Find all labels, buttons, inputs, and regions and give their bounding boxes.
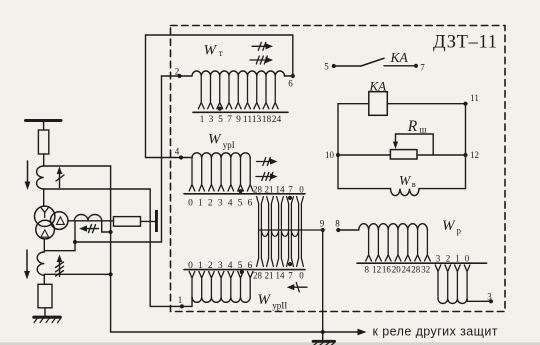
node junction C bbox=[109, 272, 113, 276]
transformer T1 winding Y circle bbox=[35, 206, 55, 226]
svg-text:1: 1 bbox=[198, 261, 203, 271]
svg-text:3: 3 bbox=[436, 254, 441, 264]
svg-text:4: 4 bbox=[175, 147, 180, 157]
svg-text:W: W bbox=[399, 173, 412, 188]
svg-text:р: р bbox=[457, 226, 462, 236]
winding WурII legs bbox=[189, 271, 253, 297]
svg-text:6: 6 bbox=[288, 79, 293, 89]
polarity arrow Wт two-slash bbox=[252, 42, 267, 50]
wire resistor to plate bar bbox=[141, 220, 156, 222]
terminal 4 bbox=[181, 157, 192, 159]
wire TA2 bottom terminal bbox=[44, 273, 110, 275]
svg-text:11: 11 bbox=[470, 93, 479, 103]
contact KA bbox=[332, 64, 336, 68]
wire TA2 to load resistor bbox=[43, 275, 45, 284]
bottom output wire bbox=[111, 331, 358, 333]
wire rail to KA coil bbox=[338, 103, 369, 105]
terminal 3 bbox=[467, 299, 489, 302]
svg-text:16: 16 bbox=[382, 265, 392, 275]
svg-text:21: 21 bbox=[265, 185, 274, 195]
svg-text:урI: урI bbox=[223, 140, 235, 150]
svg-text:W: W bbox=[442, 218, 456, 234]
WурI tap legs bbox=[189, 158, 253, 191]
current arrow I2 down bbox=[26, 250, 28, 271]
current arrow I1 down bbox=[27, 161, 29, 182]
svg-text:32: 32 bbox=[421, 265, 430, 275]
Wт tap legs bbox=[198, 76, 278, 109]
WурI tap 5 dot bbox=[238, 189, 242, 193]
relay coil KA bbox=[369, 92, 388, 116]
aux CT TA3 bumps bbox=[74, 215, 101, 221]
terminal 6 bbox=[285, 35, 293, 76]
svg-text:W: W bbox=[204, 43, 218, 59]
winding Wв coil bbox=[391, 189, 420, 196]
svg-text:0: 0 bbox=[299, 270, 304, 280]
wire rail to Wв bbox=[338, 188, 391, 190]
svg-text:ш: ш bbox=[420, 125, 427, 135]
winding Wр coil bbox=[359, 224, 428, 230]
Wт tap bar bbox=[193, 111, 288, 113]
svg-text:1: 1 bbox=[455, 254, 460, 264]
Wр fine tap numbers 3 2 1 0 bbox=[436, 254, 470, 264]
svg-text:21: 21 bbox=[265, 270, 274, 280]
flux arrow one-slash at TA1 bbox=[56, 172, 64, 188]
svg-text:14: 14 bbox=[276, 270, 286, 280]
wire to chassis ground bbox=[322, 332, 324, 341]
polarity arrow WурI two-slash bbox=[257, 158, 272, 166]
terminal 1 bbox=[150, 297, 192, 306]
middle winding cross arcs bbox=[261, 230, 298, 236]
svg-text:12: 12 bbox=[470, 150, 479, 160]
svg-text:28: 28 bbox=[253, 185, 263, 195]
svg-text:1: 1 bbox=[198, 199, 203, 209]
winding Wт coil bbox=[192, 71, 285, 76]
polarity arrow WурI three-slash bbox=[256, 173, 273, 181]
delta symbol bottom bbox=[41, 230, 49, 237]
Wр tap bar bbox=[357, 262, 487, 264]
svg-text:0: 0 bbox=[188, 261, 193, 271]
svg-text:28: 28 bbox=[253, 270, 263, 280]
flux arrow three-slash at TA2 bbox=[56, 260, 64, 277]
svg-text:6: 6 bbox=[248, 199, 253, 209]
svg-text:24: 24 bbox=[402, 265, 412, 275]
svg-text:в: в bbox=[412, 179, 416, 189]
arrow to other relays bbox=[358, 329, 367, 336]
wire T1 bottom to CT TA2 bbox=[43, 239, 45, 252]
breaker Q bbox=[38, 130, 48, 154]
transformer T1 Y symbol bbox=[41, 208, 48, 218]
Wр fine winding legs bbox=[435, 265, 470, 299]
WурII tap 5 dot bbox=[240, 270, 244, 274]
svg-text:5: 5 bbox=[238, 199, 243, 209]
svg-text:5: 5 bbox=[324, 62, 329, 72]
svg-text:5: 5 bbox=[218, 115, 223, 125]
wire TA1 top terminal bbox=[44, 165, 111, 167]
Wр tap legs bbox=[366, 230, 431, 261]
wire TA3 left tap down bbox=[74, 221, 76, 251]
WурI tap bar bbox=[184, 193, 305, 195]
svg-text:28: 28 bbox=[411, 265, 421, 275]
svg-text:КА: КА bbox=[390, 50, 409, 65]
svg-text:13: 13 bbox=[252, 115, 262, 125]
wire node A to vertical C bbox=[75, 241, 162, 243]
svg-text:3: 3 bbox=[218, 199, 223, 209]
WурII tap numbers 0-6 bbox=[188, 261, 252, 271]
wire busbar to breaker Q bbox=[43, 122, 45, 130]
svg-text:3: 3 bbox=[209, 115, 214, 125]
svg-text:5: 5 bbox=[238, 261, 243, 271]
relay case dashed boundary ДЗТ-11 bbox=[171, 26, 506, 312]
resistor Rш bbox=[390, 150, 417, 159]
terminal 2 bbox=[162, 75, 193, 77]
vertical wire C from terminal 2 bbox=[161, 76, 163, 242]
svg-text:4: 4 bbox=[228, 199, 233, 209]
svg-text:9: 9 bbox=[320, 219, 325, 229]
Rш wiper arm bbox=[396, 134, 434, 155]
svg-text:3: 3 bbox=[487, 292, 492, 302]
svg-text:2: 2 bbox=[208, 199, 213, 209]
Wр tap numbers bbox=[365, 265, 431, 275]
svg-text:урII: урII bbox=[272, 300, 287, 310]
flux arrow two-slash left at TA3 bbox=[85, 225, 99, 233]
svg-text:3: 3 bbox=[218, 261, 223, 271]
resistor R in TA3 circuit bbox=[114, 217, 141, 227]
node 8 bbox=[336, 228, 340, 232]
busbar bbox=[26, 119, 62, 122]
wire KA coil to node 11 bbox=[387, 103, 465, 105]
svg-text:т: т bbox=[219, 48, 223, 58]
node 12 bbox=[463, 153, 467, 157]
svg-text:10: 10 bbox=[325, 150, 335, 160]
Wт tap numbers bbox=[200, 115, 282, 125]
node junction A bbox=[73, 240, 77, 244]
svg-text:8: 8 bbox=[365, 265, 370, 275]
load resistor bottom left bbox=[38, 284, 52, 308]
junction on bottom wire bbox=[321, 330, 325, 334]
svg-text:7: 7 bbox=[288, 185, 293, 195]
wire TA1 to transformer T1 bbox=[43, 189, 45, 206]
outer vertical wire A terminal 6 to terminal 4 bbox=[146, 35, 293, 158]
node 11 bbox=[463, 102, 467, 106]
Wт tap 5 dot bbox=[218, 107, 222, 111]
wire TA1 bottom terminal to vertical B bbox=[44, 188, 151, 190]
node 10 bbox=[336, 153, 340, 157]
svg-text:ДЗТ–11: ДЗТ–11 bbox=[433, 33, 497, 53]
wire node 9 down to bottom wire bbox=[322, 230, 324, 332]
KA block right rail bbox=[465, 104, 467, 189]
svg-text:0: 0 bbox=[299, 185, 304, 195]
svg-text:0: 0 bbox=[188, 199, 193, 209]
delta symbol right bbox=[57, 217, 65, 225]
svg-text:2: 2 bbox=[446, 254, 451, 264]
middle winding upper tap numbers bbox=[253, 185, 304, 195]
svg-text:7: 7 bbox=[288, 270, 293, 280]
svg-text:14: 14 bbox=[276, 185, 286, 195]
svg-text:7: 7 bbox=[420, 63, 425, 73]
wire node 8 to Wр bbox=[338, 229, 359, 231]
wire breaker to CT TA1 bbox=[43, 154, 45, 166]
CT TA2 secondary bumps bbox=[37, 252, 44, 275]
polarity arrow Wт three-slash bbox=[250, 56, 267, 64]
svg-text:к реле других защит: к реле других защит bbox=[373, 324, 498, 338]
svg-text:4: 4 bbox=[228, 261, 233, 271]
node 9 bbox=[321, 228, 325, 232]
Wр fine winding coil bottom bbox=[438, 299, 467, 304]
plate bar terminal bbox=[155, 210, 158, 232]
wire node 10 to Rш bbox=[338, 154, 390, 156]
terminal number labels bbox=[175, 62, 493, 306]
middle section tap 7 dot lower bbox=[288, 262, 292, 266]
svg-text:7: 7 bbox=[227, 115, 232, 125]
ground symbol left bbox=[34, 316, 60, 319]
svg-text:9: 9 bbox=[236, 115, 241, 125]
svg-text:W: W bbox=[208, 132, 222, 148]
svg-text:1: 1 bbox=[178, 295, 183, 305]
svg-text:1: 1 bbox=[200, 115, 205, 125]
middle winding lower tap numbers bbox=[253, 270, 304, 280]
svg-text:12: 12 bbox=[372, 265, 381, 275]
svg-text:18: 18 bbox=[262, 115, 272, 125]
svg-text:6: 6 bbox=[248, 261, 253, 271]
svg-text:R: R bbox=[407, 118, 418, 135]
wire Rш to node 12 bbox=[417, 154, 466, 156]
CT TA1 secondary bumps bbox=[37, 166, 44, 189]
wire Wв to right rail bbox=[419, 188, 466, 190]
transformer T1 winding delta circle right bbox=[50, 212, 68, 230]
svg-text:0: 0 bbox=[465, 254, 470, 264]
middle section tap 7 dot upper bbox=[288, 196, 292, 200]
svg-text:24: 24 bbox=[272, 115, 282, 125]
common return vertical wire bbox=[110, 166, 112, 332]
wire T1 delta to aux CT TA3 bbox=[68, 220, 114, 222]
node junction B bbox=[109, 230, 113, 234]
svg-text:2: 2 bbox=[208, 261, 213, 271]
winding WурII coil bottom bbox=[192, 297, 250, 302]
svg-text:W: W bbox=[258, 292, 272, 308]
jog TA3 right terminal bbox=[102, 221, 111, 232]
winding WурI coil bbox=[192, 153, 250, 158]
svg-text:КА: КА bbox=[369, 79, 387, 94]
svg-text:20: 20 bbox=[392, 265, 402, 275]
relay coil KA block left rail bbox=[337, 104, 339, 189]
ground symbol bottom bbox=[313, 340, 335, 343]
polarity arrow WурII one-slash left bbox=[292, 283, 307, 292]
WурI tap numbers 0-6 bbox=[188, 199, 252, 209]
svg-text:8: 8 bbox=[335, 219, 340, 229]
WурII tap bar bbox=[184, 269, 305, 271]
wire load to ground bbox=[44, 308, 46, 317]
jog TA2 top terminal bbox=[44, 250, 75, 252]
transformer T1 winding delta circle bottom bbox=[36, 220, 55, 239]
vertical wire B to terminal 1 bbox=[149, 189, 151, 306]
svg-text:2: 2 bbox=[175, 67, 180, 77]
middle equalizing winding columns bbox=[257, 197, 304, 267]
